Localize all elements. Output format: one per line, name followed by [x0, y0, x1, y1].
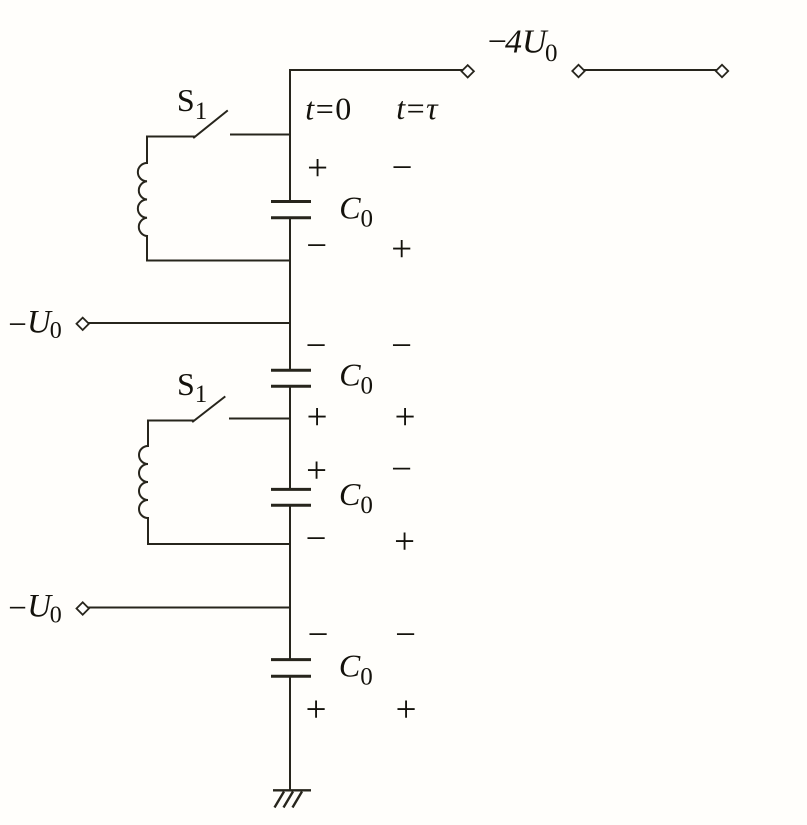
svg-text:+: + [391, 229, 412, 270]
ground symbol [273, 790, 311, 807]
inductor L1 coil [138, 163, 147, 236]
svg-text:S1: S1 [177, 82, 207, 125]
svg-text:+: + [307, 397, 328, 438]
wire floating segment right [584, 69, 717, 71]
svg-text:+: + [306, 690, 327, 731]
wire coil bottom to lower rail lower block [147, 518, 149, 544]
svg-text:C0: C0 [339, 476, 373, 519]
terminal diamond -4U0 [462, 65, 474, 77]
svg-text:−: − [308, 615, 329, 656]
svg-text:−: − [306, 326, 327, 367]
svg-text:S1: S1 [177, 366, 207, 408]
wire top output to terminal [290, 69, 462, 71]
svg-text:−: − [306, 519, 327, 560]
switch S1 upper: blade [194, 111, 227, 138]
svg-text:+: + [307, 148, 328, 189]
inductor L2 coil [139, 446, 148, 518]
capacitor C0 #3 plates [271, 489, 311, 505]
wire bus segment 4 [289, 507, 291, 659]
capacitor C0 #1 plates [271, 202, 311, 218]
vertical bus wire segment 1 [289, 70, 291, 200]
wire bus segment 3 [289, 388, 291, 489]
wire -U0 terminal 1 to bus [89, 322, 290, 324]
svg-text:C0: C0 [339, 648, 373, 691]
svg-text:+: + [394, 522, 415, 563]
svg-text:+: + [396, 690, 417, 731]
wire coil bottom to lower rail upper block [146, 236, 148, 261]
wire left branch lower (switch to coil) [147, 421, 149, 447]
svg-text:−: − [391, 326, 412, 367]
svg-text:−: − [391, 449, 412, 490]
wire bus segment 5 [289, 678, 291, 791]
svg-text:+: + [395, 397, 416, 438]
terminal diamond float left [572, 65, 584, 77]
wire left branch upper (switch to coil) [146, 137, 148, 164]
wire -U0 terminal 2 to bus [89, 607, 290, 609]
svg-text:C0: C0 [339, 357, 373, 400]
switch S1 upper: left lead [147, 136, 194, 138]
switch S1 lower: blade [193, 397, 225, 422]
switch S1 lower: right contact to bus [230, 418, 290, 420]
svg-text:t=τ: t=τ [396, 90, 439, 126]
terminal diamond float right [716, 65, 728, 77]
terminal diamond -U0 #1 [77, 318, 89, 330]
capacitor C0 #4 plates [271, 660, 311, 677]
svg-text:t=0: t=0 [305, 90, 352, 126]
svg-text:−U0: −U0 [8, 589, 62, 629]
wire bottom rail upper block [147, 260, 290, 262]
svg-text:−4U0: −4U0 [488, 24, 558, 67]
svg-text:−: − [306, 225, 327, 266]
svg-text:+: + [306, 451, 327, 492]
switch S1 lower: left lead [148, 420, 193, 422]
switch S1 upper: right contact to bus [231, 134, 290, 136]
svg-text:−: − [392, 148, 413, 189]
svg-text:−U0: −U0 [8, 304, 62, 344]
svg-text:−: − [395, 615, 416, 656]
wire bottom rail lower block [148, 543, 290, 545]
terminal diamond -U0 #2 [77, 602, 89, 614]
capacitor C0 #2 plates [271, 370, 311, 386]
wire bus segment 2 [289, 219, 291, 370]
svg-text:C0: C0 [339, 190, 373, 233]
